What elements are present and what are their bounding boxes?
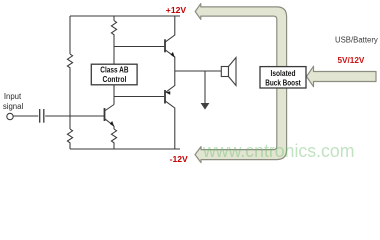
ground symbol xyxy=(201,103,210,110)
wire base of Q1 upper output xyxy=(114,46,164,48)
wire class AB box to lower node xyxy=(113,85,115,105)
svg-text:-12V: -12V xyxy=(170,154,188,164)
wire middle vertical to class AB box xyxy=(113,35,115,64)
wire R4 to bottom rail xyxy=(113,143,115,149)
arrow of Q3 emitter xyxy=(110,121,114,127)
wire base of Q2 lower output xyxy=(114,96,164,98)
wire middle vertical from top rail xyxy=(113,16,115,21)
transistor Q1 (NPN upper output) xyxy=(165,16,175,71)
wire left vertical middle segment xyxy=(69,68,71,129)
input terminal xyxy=(7,113,13,119)
resistor R4 (emitter) xyxy=(111,129,116,143)
svg-text:www.cntronics.com: www.cntronics.com xyxy=(202,141,354,161)
power input arrow (from USB/battery into buck boost) xyxy=(307,66,377,86)
svg-text:Buck Boost: Buck Boost xyxy=(265,79,301,88)
speaker LS1 xyxy=(221,58,236,86)
resistor R2 (lower bias) xyxy=(67,129,72,143)
wire input signal line xyxy=(13,115,38,117)
transistor Q2 (PNP lower output) xyxy=(165,71,175,149)
capacitor C1 plates xyxy=(39,109,41,123)
wire capacitor to driver base xyxy=(45,115,104,117)
wire +12V top rail xyxy=(70,15,180,17)
power arrow +12V elbow (buck-boost output, top) xyxy=(195,4,286,75)
svg-text:Class AB: Class AB xyxy=(100,66,128,75)
wire -12V bottom rail xyxy=(70,148,180,150)
svg-text:+12V: +12V xyxy=(166,5,187,15)
wire output node to speaker xyxy=(175,70,222,72)
arrow of Q2 emitter (PNP, points toward bar) xyxy=(166,91,171,95)
arrow of Q1 emitter xyxy=(171,52,175,58)
block: Class AB Control U1 xyxy=(91,64,137,85)
wire ground stem xyxy=(204,71,206,103)
block: Isolated Buck Boost U2 xyxy=(260,67,306,88)
wires and components, schematic xyxy=(13,16,221,149)
resistor R1 (upper bias) xyxy=(67,54,72,68)
transistor Q3 (NPN driver) xyxy=(105,105,115,127)
wire left vertical upper segment xyxy=(69,16,71,54)
svg-text:5V/12V: 5V/12V xyxy=(338,56,365,65)
resistor R3 (collector load) xyxy=(111,21,116,36)
wire emitter of Q3 to R4 xyxy=(113,126,115,129)
svg-text:Isolated: Isolated xyxy=(271,69,296,78)
svg-text:Control: Control xyxy=(103,75,127,84)
svg-text:USB/Battery: USB/Battery xyxy=(335,36,378,45)
svg-text:Input: Input xyxy=(4,92,22,101)
power arrow -12V elbow (buck-boost output, bottom) xyxy=(195,75,287,163)
wire left vertical lower segment xyxy=(69,143,71,149)
svg-text:signal: signal xyxy=(3,102,24,111)
